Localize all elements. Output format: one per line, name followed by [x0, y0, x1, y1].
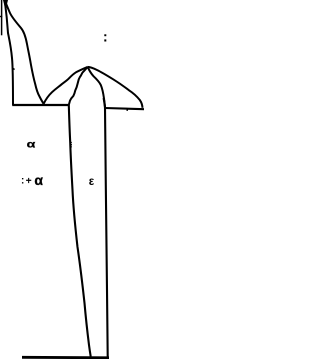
svg-text:α: α	[27, 138, 36, 150]
svg-text:ε: ε	[89, 175, 95, 188]
svg-text:α: α	[34, 172, 43, 188]
svg-text:+: +	[26, 176, 32, 187]
svg-text::: :	[21, 176, 24, 187]
